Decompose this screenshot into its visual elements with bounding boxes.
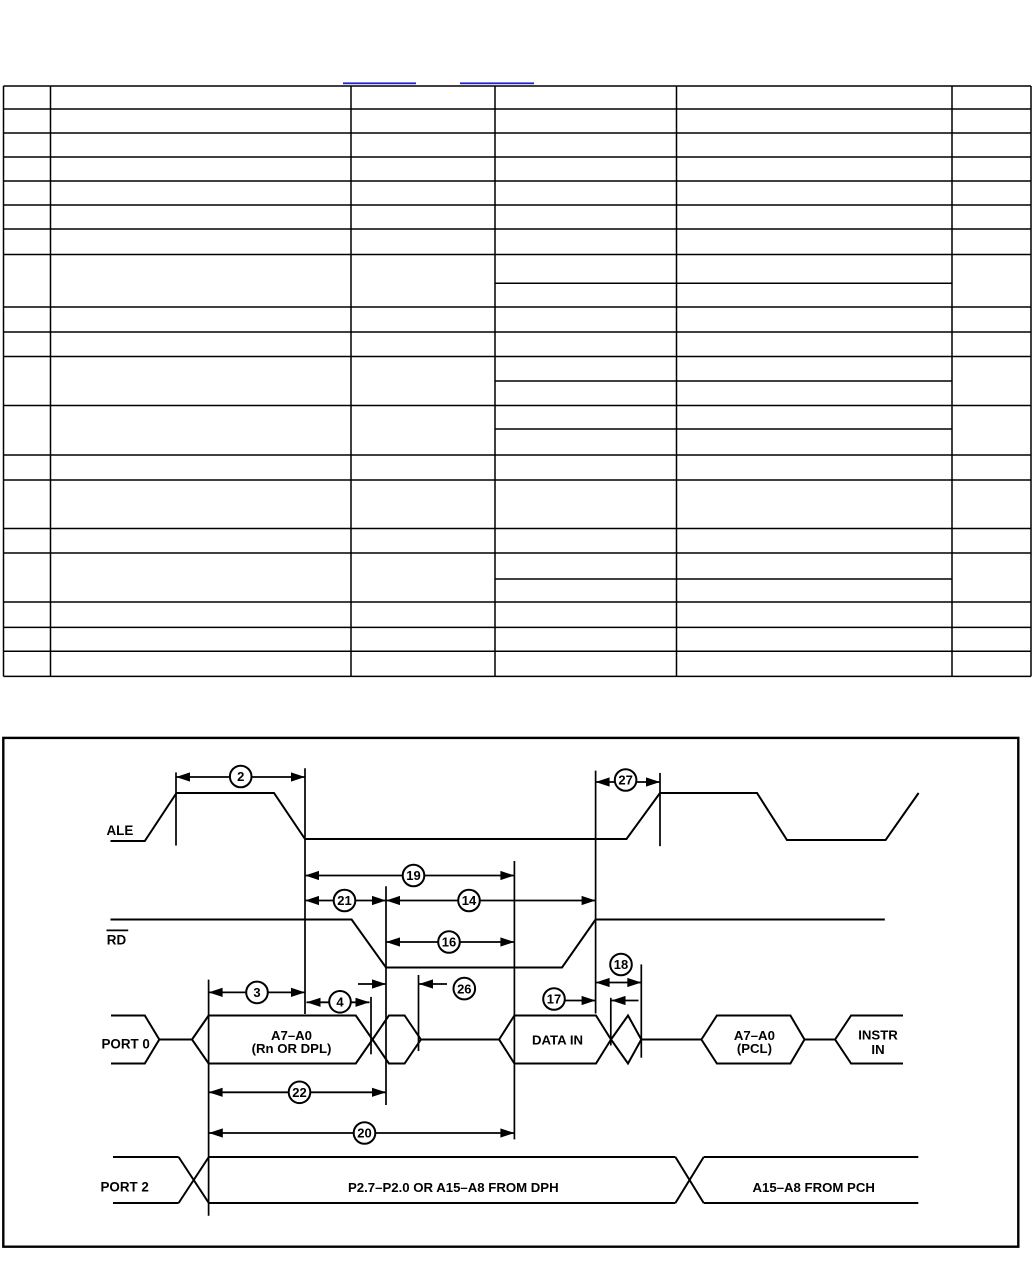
svg-text:17: 17 <box>547 992 561 1007</box>
dimension 19 <box>305 865 514 887</box>
svg-text:(Rn OR DPL): (Rn OR DPL) <box>252 1041 332 1056</box>
svg-text:INSTR: INSTR <box>858 1027 898 1042</box>
svg-text:RD: RD <box>107 932 127 947</box>
ref line ALE-fall <box>304 768 306 1014</box>
hyperlink underline 2 <box>460 82 534 84</box>
PORT 0 float line 3 <box>641 1039 701 1041</box>
tick 26-end <box>418 975 420 1051</box>
PORT 2 bus P2.7-P2.0 OR A15-A8 FROM DPH <box>209 1157 676 1203</box>
ref line data-valid <box>513 861 515 1139</box>
dimension 26 <box>358 978 475 1000</box>
RD label <box>107 930 129 947</box>
dimension 18 <box>596 954 642 987</box>
diagram frame <box>3 738 1018 1247</box>
ref line RD-fall <box>385 886 387 1105</box>
svg-text:3: 3 <box>253 985 260 1000</box>
dimension 20 <box>209 1122 515 1144</box>
svg-text:20: 20 <box>357 1126 371 1141</box>
dimension 16 <box>386 931 514 953</box>
PORT 2 crossover 2 <box>675 1157 703 1203</box>
ref line RD-rise <box>595 771 597 1014</box>
PORT 0 float sliver 1 <box>373 1016 421 1064</box>
PORT 0 bus INSTR IN <box>835 1016 903 1064</box>
ref line addr-start <box>208 980 210 1216</box>
PORT 0 bus A7-A0 (Rn OR DPL) <box>192 1016 373 1064</box>
tick ALE-rise <box>175 772 177 845</box>
dimension 27 <box>596 769 660 791</box>
tick 17-end <box>610 998 612 1046</box>
table grid <box>4 86 1032 676</box>
PORT 2 left stub <box>113 1157 179 1203</box>
svg-text:PORT 0: PORT 0 <box>102 1037 150 1052</box>
svg-text:27: 27 <box>618 773 632 788</box>
svg-text:IN: IN <box>871 1042 884 1057</box>
RD waveform <box>111 920 885 968</box>
dimension 21 <box>305 890 386 912</box>
svg-text:21: 21 <box>337 893 351 908</box>
PORT 2 bus A15-A8 FROM PCH <box>704 1157 919 1203</box>
svg-text:18: 18 <box>614 957 628 972</box>
PORT 0 float line 1 <box>159 1039 192 1041</box>
PORT 0 float line 2 <box>421 1039 499 1041</box>
svg-text:P2.7–P2.0 OR A15–A8 FROM DPH: P2.7–P2.0 OR A15–A8 FROM DPH <box>348 1180 559 1195</box>
PORT 0 left stub <box>111 1016 159 1064</box>
tick 18-end <box>640 964 642 1057</box>
tick addr-end <box>370 997 372 1054</box>
svg-text:19: 19 <box>406 868 420 883</box>
svg-text:DATA IN: DATA IN <box>532 1032 583 1047</box>
svg-text:4: 4 <box>336 995 344 1010</box>
svg-text:14: 14 <box>462 893 477 908</box>
PORT 0 float line 4 <box>805 1039 836 1041</box>
tick 27-end <box>659 773 661 846</box>
hyperlink underline 1 <box>343 82 416 84</box>
dimension 22 <box>209 1082 386 1104</box>
PORT 0 float sliver 2 <box>611 1016 641 1064</box>
svg-text:2: 2 <box>237 769 244 784</box>
svg-text:ALE: ALE <box>107 823 134 838</box>
ALE waveform <box>111 793 919 841</box>
svg-text:16: 16 <box>442 935 456 950</box>
PORT 0 bus A7-A0 (PCL) <box>701 1016 804 1064</box>
dimension 17 <box>543 988 638 1010</box>
PORT 2 crossover 1 <box>179 1157 209 1203</box>
dimension 4 <box>307 991 370 1013</box>
svg-text:22: 22 <box>292 1085 306 1100</box>
svg-text:A15–A8 FROM PCH: A15–A8 FROM PCH <box>753 1180 875 1195</box>
dimension 2 <box>176 766 305 788</box>
svg-text:26: 26 <box>457 981 471 996</box>
dimension 3 <box>209 982 305 1004</box>
PORT 0 bus DATA IN <box>499 1016 611 1064</box>
svg-text:PORT 2: PORT 2 <box>101 1180 149 1195</box>
dimension 14 <box>386 890 596 912</box>
svg-text:(PCL): (PCL) <box>737 1041 772 1056</box>
